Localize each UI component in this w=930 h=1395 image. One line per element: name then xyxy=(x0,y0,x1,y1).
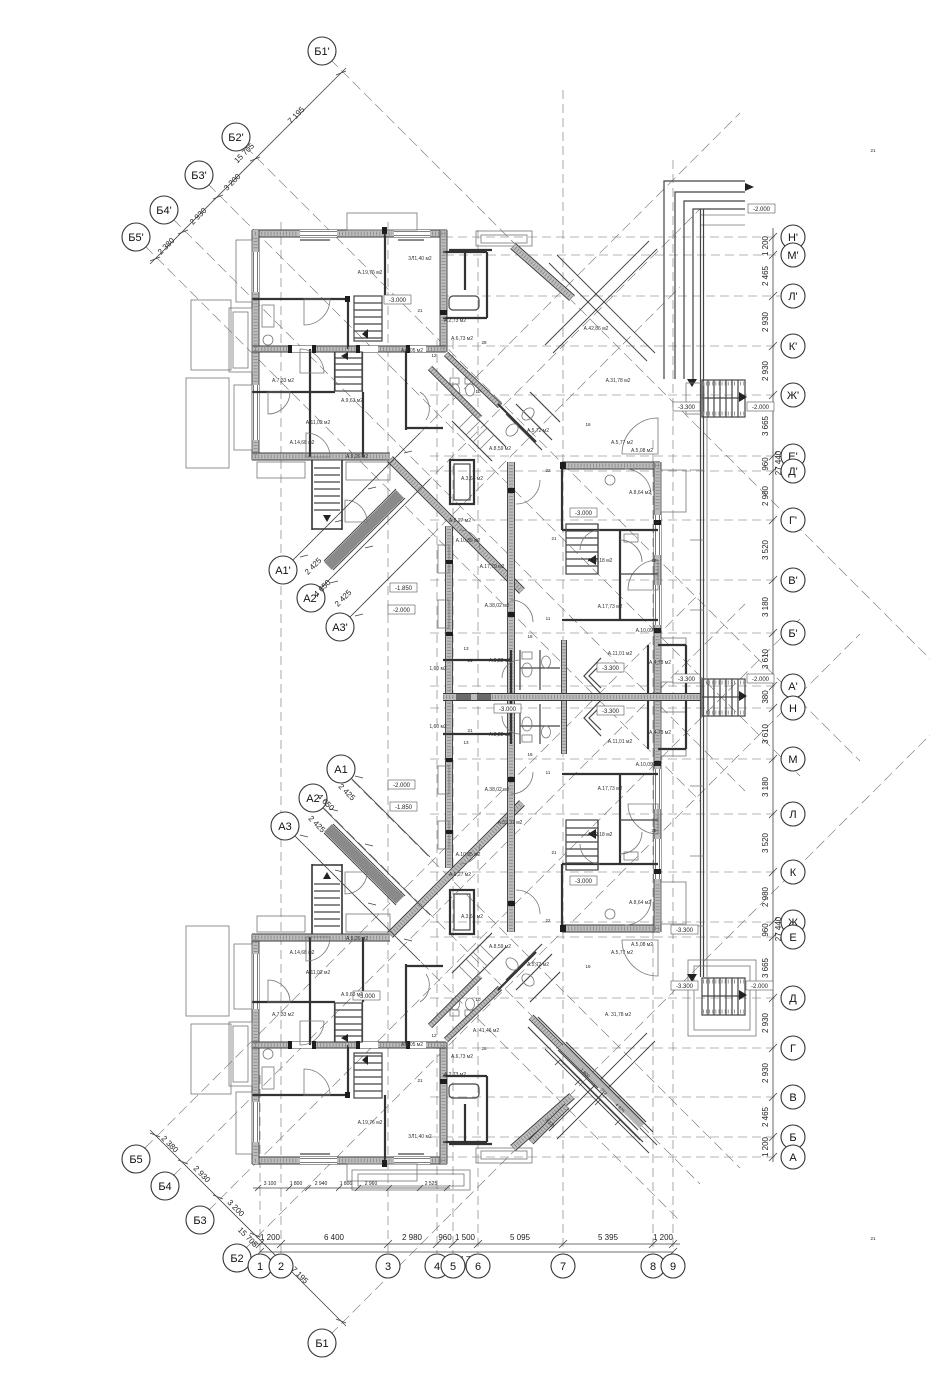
svg-text:3Л1,40 м2: 3Л1,40 м2 xyxy=(408,1134,432,1140)
svg-text:13: 13 xyxy=(463,740,469,745)
svg-text:А': А' xyxy=(788,681,797,693)
svg-text:А.5,77 м2: А.5,77 м2 xyxy=(611,950,633,956)
svg-text:-3.000: -3.000 xyxy=(499,707,517,713)
svg-text:Б: Б xyxy=(789,1132,796,1144)
svg-text:А.11,01 м2: А.11,01 м2 xyxy=(608,739,633,745)
vertical axis 1 xyxy=(259,1075,261,1253)
svg-text:5: 5 xyxy=(450,1261,456,1273)
А dim ticks bottom xyxy=(300,776,412,941)
svg-text:3 520: 3 520 xyxy=(761,832,770,853)
svg-text:А.10,85 м2: А.10,85 м2 xyxy=(456,538,481,544)
axis circle А3 xyxy=(271,812,299,840)
horizontal axis Б xyxy=(430,1136,780,1138)
svg-text:А.9,26 м2: А.9,26 м2 xyxy=(346,454,368,460)
svg-text:Б2': Б2' xyxy=(228,132,243,144)
vertical axis 8 xyxy=(652,440,654,1253)
svg-text:А.9,63 м2: А.9,63 м2 xyxy=(341,992,363,998)
svg-text:3 610: 3 610 xyxy=(761,723,770,744)
svg-text:А.5,72 м2: А.5,72 м2 xyxy=(527,962,549,968)
svg-text:Б5': Б5' xyxy=(128,232,143,244)
svg-text:В': В' xyxy=(788,575,797,587)
svg-text:А.5,72 м2: А.5,72 м2 xyxy=(527,428,549,434)
svg-text:А.38,02 м2: А.38,02 м2 xyxy=(485,603,510,609)
svg-text:1 500: 1 500 xyxy=(455,1233,476,1242)
svg-text:21: 21 xyxy=(467,658,473,663)
svg-text:4: 4 xyxy=(434,1261,440,1273)
bottom dim ticks xyxy=(256,1240,677,1248)
svg-text:960: 960 xyxy=(761,923,770,937)
room labels bottom half xyxy=(272,724,671,1140)
svg-text:А.8,22 м2: А.8,22 м2 xyxy=(489,658,511,664)
svg-text:-3.300: -3.300 xyxy=(678,405,696,411)
svg-text:А.14,68 м2: А.14,68 м2 xyxy=(290,440,315,446)
svg-text:Н': Н' xyxy=(788,232,798,244)
svg-text:А.8,59 м2: А.8,59 м2 xyxy=(489,446,511,452)
svg-text:1 800: 1 800 xyxy=(290,1181,303,1187)
axis circle Б5 xyxy=(122,1145,150,1173)
svg-text:21: 21 xyxy=(417,308,423,313)
svg-text:1 800: 1 800 xyxy=(340,1181,353,1187)
level box -3.300 right top xyxy=(673,402,700,411)
diagonal axis Б1' xyxy=(330,59,930,679)
svg-text:28: 28 xyxy=(481,340,487,345)
svg-text:1 200: 1 200 xyxy=(761,235,770,256)
svg-text:Л: Л xyxy=(789,809,796,821)
tiny leader numbers xyxy=(417,148,876,1241)
hatch speckle corridor wall xyxy=(443,695,700,699)
axis circle Б1' xyxy=(308,37,336,65)
horizontal axis Ж' xyxy=(430,394,780,396)
svg-text:А.3,65 м2: А.3,65 м2 xyxy=(461,476,483,482)
svg-text:М: М xyxy=(788,754,797,766)
svg-text:-3.300: -3.300 xyxy=(676,928,694,934)
svg-text:А.11,01 м2: А.11,01 м2 xyxy=(608,651,633,657)
diagonal axis Б5 xyxy=(145,593,700,1148)
svg-text:21: 21 xyxy=(551,850,557,855)
L-ramp second bar xyxy=(700,215,745,225)
svg-text:А.9,26 м2: А.9,26 м2 xyxy=(346,936,368,942)
svg-text:10: 10 xyxy=(475,997,481,1002)
stair Ж' xyxy=(702,380,747,417)
svg-text:2 980: 2 980 xyxy=(402,1233,423,1242)
horizontal axis В xyxy=(430,1096,780,1098)
bottom dim texts xyxy=(260,1233,674,1242)
svg-text:1 200: 1 200 xyxy=(653,1233,674,1242)
svg-text:А.19,76 м2: А.19,76 м2 xyxy=(358,270,383,276)
svg-text:А.8,59 м2: А.8,59 м2 xyxy=(489,944,511,950)
stair А'-Н right walkway xyxy=(702,679,747,716)
svg-text:А.10,09 м2: А.10,09 м2 xyxy=(636,762,661,768)
svg-text:А1: А1 xyxy=(334,764,347,776)
svg-text:А.5,08 м2: А.5,08 м2 xyxy=(631,448,653,454)
level box -2.000 bottom xyxy=(388,780,415,789)
WALKWAY xyxy=(352,181,756,1190)
svg-text:-3.000: -3.000 xyxy=(389,298,407,304)
axis circle Б2' xyxy=(222,123,250,151)
svg-text:А3': А3' xyxy=(332,622,348,634)
svg-text:М': М' xyxy=(787,250,798,262)
corridor wall y=697 xyxy=(443,694,700,701)
svg-text:2: 2 xyxy=(278,1261,284,1273)
diagonal dim line top-left xyxy=(150,68,346,264)
svg-text:А. 31,78 м2: А. 31,78 м2 xyxy=(605,1012,631,1018)
corridor wall dark bars xyxy=(456,693,491,701)
L-ramp line 4 xyxy=(693,209,745,379)
svg-text:1 200: 1 200 xyxy=(260,1233,281,1242)
svg-text:Н: Н xyxy=(789,703,797,715)
svg-text:А.14,68 м2: А.14,68 м2 xyxy=(290,950,315,956)
svg-text:16: 16 xyxy=(585,422,591,427)
svg-text:6 400: 6 400 xyxy=(324,1233,345,1242)
horizontal axis А' xyxy=(430,685,780,687)
bottom wing hatched band 2 xyxy=(529,1104,569,1144)
svg-text:3 100: 3 100 xyxy=(264,1181,277,1187)
svg-text:Б4': Б4' xyxy=(156,205,171,217)
svg-text:А.19,76 м2: А.19,76 м2 xyxy=(358,1120,383,1126)
svg-text:А.2,73 м2: А.2,73 м2 xyxy=(444,318,466,324)
diagonal axis Б3' xyxy=(208,184,800,776)
svg-text:2 980: 2 980 xyxy=(761,886,770,907)
svg-text:А.6,73 м2: А.6,73 м2 xyxy=(451,336,473,342)
level box -3.300 right mid xyxy=(673,674,700,683)
landing left of stair xyxy=(686,383,704,414)
svg-text:А.4,78 м2: А.4,78 м2 xyxy=(649,730,671,736)
AXES / CIRCLES / DIMS xyxy=(122,37,805,1357)
svg-text:А.4,78 м2: А.4,78 м2 xyxy=(649,660,671,666)
diagonal axis А2 xyxy=(313,797,700,1184)
svg-text:А1': А1' xyxy=(275,565,291,577)
level box -3.300 center b xyxy=(597,706,624,715)
bottom overall dim xyxy=(256,1248,677,1264)
horizontal axis Н' xyxy=(430,236,780,238)
bottom ramp extra diagonals xyxy=(528,1017,653,1142)
corridor wall edge xyxy=(443,694,700,701)
diagonal axis А2' xyxy=(311,209,700,598)
horizontal axis К' xyxy=(430,345,780,347)
А' dim lines xyxy=(290,433,430,620)
svg-text:6: 6 xyxy=(475,1261,481,1273)
svg-text:А. 41,46 м2: А. 41,46 м2 xyxy=(473,1028,499,1034)
level box -1.850 bottom xyxy=(390,802,417,811)
svg-text:5 095: 5 095 xyxy=(510,1233,531,1242)
svg-text:А.11,02 м2: А.11,02 м2 xyxy=(306,420,331,426)
svg-text:21: 21 xyxy=(551,536,557,541)
diagonal axis А3' xyxy=(340,287,680,627)
walkway cross ticks xyxy=(690,470,704,926)
horizontal axis Г' xyxy=(430,519,780,521)
svg-text:-3.000: -3.000 xyxy=(575,879,593,885)
svg-text:Е: Е xyxy=(789,932,796,944)
svg-text:27 440: 27 440 xyxy=(774,916,783,941)
svg-text:А.17,73 м2: А.17,73 м2 xyxy=(598,604,623,610)
svg-text:960: 960 xyxy=(438,1233,452,1242)
ticks top-left diagonal xyxy=(150,71,346,261)
svg-text:В: В xyxy=(789,1092,796,1104)
svg-text:21: 21 xyxy=(870,1236,876,1241)
svg-text:А.6,73 м2: А.6,73 м2 xyxy=(451,1054,473,1060)
bottom ramp tick dims xyxy=(555,1059,640,1140)
svg-text:-3.300: -3.300 xyxy=(678,677,696,683)
ramp dim texts xyxy=(544,1067,626,1129)
stair chevrons upper xyxy=(584,658,601,694)
svg-text:Д': Д' xyxy=(788,466,798,478)
diagonal axis Б2' xyxy=(245,146,860,761)
svg-text:К': К' xyxy=(789,341,798,353)
bottom wing hatched band 1 xyxy=(529,1015,602,1088)
axis circle Б2 xyxy=(223,1244,251,1272)
bottom number circles xyxy=(248,1254,685,1278)
svg-text:21: 21 xyxy=(417,1078,423,1083)
svg-text:Д: Д xyxy=(789,993,797,1005)
svg-text:18: 18 xyxy=(527,634,533,639)
svg-text:-1.850: -1.850 xyxy=(395,586,413,592)
dim labels А' xyxy=(303,556,354,609)
horizontal axis Н xyxy=(430,707,780,709)
svg-text:2 930: 2 930 xyxy=(761,360,770,381)
svg-text:А.3,65 м2: А.3,65 м2 xyxy=(461,914,483,920)
terrace below bottom block xyxy=(352,1170,470,1190)
svg-text:2 940: 2 940 xyxy=(315,1181,328,1187)
svg-text:18: 18 xyxy=(527,752,533,757)
svg-text:А.7,33 м2: А.7,33 м2 xyxy=(272,1012,294,1018)
horizontal axis В' xyxy=(430,579,780,581)
L-ramp outer xyxy=(664,181,745,379)
level box -2.000 right top xyxy=(747,402,774,411)
svg-text:А.12,18 м2: А.12,18 м2 xyxy=(588,558,613,564)
axis circle Б3 xyxy=(186,1206,214,1234)
svg-text:А.12,18 м2: А.12,18 м2 xyxy=(588,832,613,838)
dim labels bottom-left diagonal xyxy=(160,1134,311,1286)
svg-text:28: 28 xyxy=(651,828,657,833)
svg-text:12: 12 xyxy=(431,1033,437,1038)
vertical axis 6 xyxy=(477,230,479,1253)
svg-text:А.8,05 м2: А.8,05 м2 xyxy=(401,1042,423,1048)
svg-text:-2.000: -2.000 xyxy=(751,984,769,990)
svg-text:А.5,77 м2: А.5,77 м2 xyxy=(611,440,633,446)
svg-text:-3.300: -3.300 xyxy=(602,709,620,715)
level box -3.300 E row xyxy=(671,925,698,934)
svg-text:11: 11 xyxy=(546,770,551,775)
horizontal axis М xyxy=(430,758,780,760)
svg-text:А.10,09 м2: А.10,09 м2 xyxy=(636,628,661,634)
axis circle А2 xyxy=(299,784,327,812)
axis circle Б4' xyxy=(150,196,178,224)
diagonal axis Б2 xyxy=(245,634,860,1249)
horizontal axis Г xyxy=(430,1047,780,1049)
level box -3.000 center top xyxy=(570,508,597,517)
svg-text:А.6,27 м2: А.6,27 м2 xyxy=(449,518,471,524)
svg-text:А: А xyxy=(789,1152,797,1164)
vertical axis 2 xyxy=(280,222,282,1253)
diagonal axis А1' (up-right) xyxy=(283,113,740,570)
svg-text:22: 22 xyxy=(545,918,551,923)
svg-text:Б3': Б3' xyxy=(191,170,206,182)
svg-text:А.31,78 м2: А.31,78 м2 xyxy=(606,378,631,384)
svg-text:21: 21 xyxy=(870,148,876,153)
level box -1.850 top xyxy=(390,583,417,592)
svg-text:8: 8 xyxy=(650,1261,656,1273)
diagonal axis Б3 xyxy=(208,619,800,1211)
level box -3.000 bottom block xyxy=(353,991,380,1000)
svg-text:13: 13 xyxy=(463,646,469,651)
svg-text:А.9,63 м2: А.9,63 м2 xyxy=(341,398,363,404)
svg-text:-3.300: -3.300 xyxy=(602,666,620,672)
svg-text:Б': Б' xyxy=(788,628,797,640)
bottom walkway box xyxy=(688,960,756,1036)
svg-text:Б5: Б5 xyxy=(129,1154,142,1166)
horizontal axis М' xyxy=(445,254,780,256)
level box -2.000 top xyxy=(388,605,415,614)
axis circle А3' xyxy=(326,613,354,641)
svg-text:-2.000: -2.000 xyxy=(752,405,770,411)
right dim ticks xyxy=(769,233,777,1161)
svg-text:Ж': Ж' xyxy=(787,390,799,402)
diagonal dim line bottom-left xyxy=(150,1130,346,1326)
svg-text:2 930: 2 930 xyxy=(761,311,770,332)
svg-text:22: 22 xyxy=(545,468,551,473)
level box -3.300 center a xyxy=(597,663,624,672)
dim labels top-left diagonal xyxy=(156,105,307,257)
svg-text:3 610: 3 610 xyxy=(761,648,770,669)
svg-text:А.2,73 м2: А.2,73 м2 xyxy=(444,1072,466,1078)
horizontal axis Е xyxy=(430,936,780,938)
svg-text:3: 3 xyxy=(385,1261,391,1273)
svg-text:1,60 м2: 1,60 м2 xyxy=(429,724,447,730)
dim labels А bottom xyxy=(307,782,358,835)
svg-text:960: 960 xyxy=(761,457,770,471)
axis circle Б1 xyxy=(308,1329,336,1357)
arrow top right xyxy=(745,183,754,191)
svg-text:А.17,73 м2: А.17,73 м2 xyxy=(598,786,623,792)
svg-text:А.11,02 м2: А.11,02 м2 xyxy=(306,970,331,976)
svg-text:-2.000: -2.000 xyxy=(753,207,771,213)
horizontal axis Л' xyxy=(440,295,780,297)
diagonal axis Б4 xyxy=(173,604,745,1176)
bottom ramp gray fill xyxy=(562,1046,642,1126)
svg-text:А.42,86 м2: А.42,86 м2 xyxy=(584,326,609,332)
svg-text:3 520: 3 520 xyxy=(761,539,770,560)
svg-text:1,60 м2: 1,60 м2 xyxy=(429,666,447,672)
horizontal axis Д xyxy=(430,997,780,999)
svg-text:-1.850: -1.850 xyxy=(395,805,413,811)
walkway corridor double line xyxy=(701,209,704,977)
svg-text:К: К xyxy=(790,867,797,879)
svg-text:28: 28 xyxy=(651,558,657,563)
А' dim ticks xyxy=(300,451,412,616)
svg-text:А.7,33 м2: А.7,33 м2 xyxy=(272,378,294,384)
walkway right edge segments xyxy=(706,417,708,977)
axis circle Б4 xyxy=(151,1172,179,1200)
svg-text:9: 9 xyxy=(670,1261,676,1273)
svg-text:А.38,02 м2: А.38,02 м2 xyxy=(485,787,510,793)
svg-text:7: 7 xyxy=(560,1261,566,1273)
axis circle А1' xyxy=(269,556,297,584)
horizontal axis Б' xyxy=(430,632,780,634)
svg-text:2 930: 2 930 xyxy=(761,1062,770,1083)
svg-text:1 200: 1 200 xyxy=(761,1136,770,1157)
right dim line xyxy=(772,228,774,1162)
svg-text:А.5,08 м2: А.5,08 м2 xyxy=(631,942,653,948)
svg-text:Г: Г xyxy=(790,1043,796,1055)
svg-text:Б1: Б1 xyxy=(315,1338,328,1350)
vertical axis 4 xyxy=(436,340,438,1253)
svg-text:-3.000: -3.000 xyxy=(575,511,593,517)
corridor wall edges xyxy=(443,694,700,701)
svg-text:21: 21 xyxy=(467,728,473,733)
level box -3.300 right bottom xyxy=(671,981,698,990)
room labels top half xyxy=(272,256,671,672)
svg-text:5 395: 5 395 xyxy=(598,1233,619,1242)
L-ramp line 3 xyxy=(684,201,745,379)
svg-text:-2.000: -2.000 xyxy=(393,608,411,614)
level box -3.000 mid corridor xyxy=(494,704,521,713)
svg-text:А3: А3 xyxy=(278,821,291,833)
svg-text:10: 10 xyxy=(475,389,481,394)
level box -2.000 right mid xyxy=(747,674,774,683)
svg-text:-3.300: -3.300 xyxy=(676,984,694,990)
horizontal axis К xyxy=(430,871,780,873)
right dim texts xyxy=(761,235,783,1157)
horizontal axis А xyxy=(430,1156,780,1158)
level box -2.000 right bottom xyxy=(746,981,773,990)
svg-text:Б2: Б2 xyxy=(230,1253,243,1265)
svg-text:А.8,22 м2: А.8,22 м2 xyxy=(489,732,511,738)
svg-text:Г': Г' xyxy=(789,515,797,527)
diagonal axis А3 xyxy=(285,826,680,1221)
svg-text:2 465: 2 465 xyxy=(761,1106,770,1127)
svg-text:28: 28 xyxy=(481,1046,487,1051)
horizontal axis Д' xyxy=(430,470,780,472)
horizontal axis Ж xyxy=(430,921,780,923)
axis circle Б5' xyxy=(122,223,150,251)
level box -3.000 top block xyxy=(384,295,411,304)
svg-text:2 980: 2 980 xyxy=(761,485,770,506)
svg-text:3 180: 3 180 xyxy=(761,776,770,797)
svg-text:А.6,27 м2: А.6,27 м2 xyxy=(449,872,471,878)
svg-text:2 930: 2 930 xyxy=(761,1012,770,1033)
svg-text:-2.000: -2.000 xyxy=(752,677,770,683)
svg-text:3 665: 3 665 xyxy=(761,415,770,436)
axis circle А2' xyxy=(297,584,325,612)
diagonal axis А1 (down-right) xyxy=(341,769,740,1168)
svg-text:Б4: Б4 xyxy=(158,1181,171,1193)
svg-text:11: 11 xyxy=(546,616,551,621)
vertical axis 7 xyxy=(562,90,564,1253)
svg-text:3 180: 3 180 xyxy=(761,596,770,617)
svg-text:16: 16 xyxy=(585,964,591,969)
diagonal axis Б1 (bottom, up-right) xyxy=(330,715,930,1335)
MIDDLE xyxy=(443,658,747,736)
arrow walkway down xyxy=(687,379,697,387)
svg-text:А.8,64 м2: А.8,64 м2 xyxy=(629,900,651,906)
svg-text:Б1': Б1' xyxy=(314,46,329,58)
L-ramp line 2 xyxy=(675,192,745,379)
level box -3.000 center bottom xyxy=(570,876,597,885)
svg-text:1: 1 xyxy=(257,1261,263,1273)
horizontal axis Л xyxy=(430,813,780,815)
svg-text:27 440: 27 440 xyxy=(774,450,783,475)
bottom dim line xyxy=(252,1243,680,1245)
svg-text:2 465: 2 465 xyxy=(761,265,770,286)
svg-text:А.17,79 м2: А.17,79 м2 xyxy=(480,564,505,570)
vertical axis 5 xyxy=(452,340,454,1253)
svg-text:Б3: Б3 xyxy=(193,1215,206,1227)
horizontal axis Е' xyxy=(430,455,780,457)
mini dim chain below bottom block xyxy=(253,1181,450,1191)
svg-text:3Л1,40 м2: 3Л1,40 м2 xyxy=(408,256,432,262)
level box -2.000 far top xyxy=(748,204,775,213)
А dim lines bottom xyxy=(290,774,430,961)
